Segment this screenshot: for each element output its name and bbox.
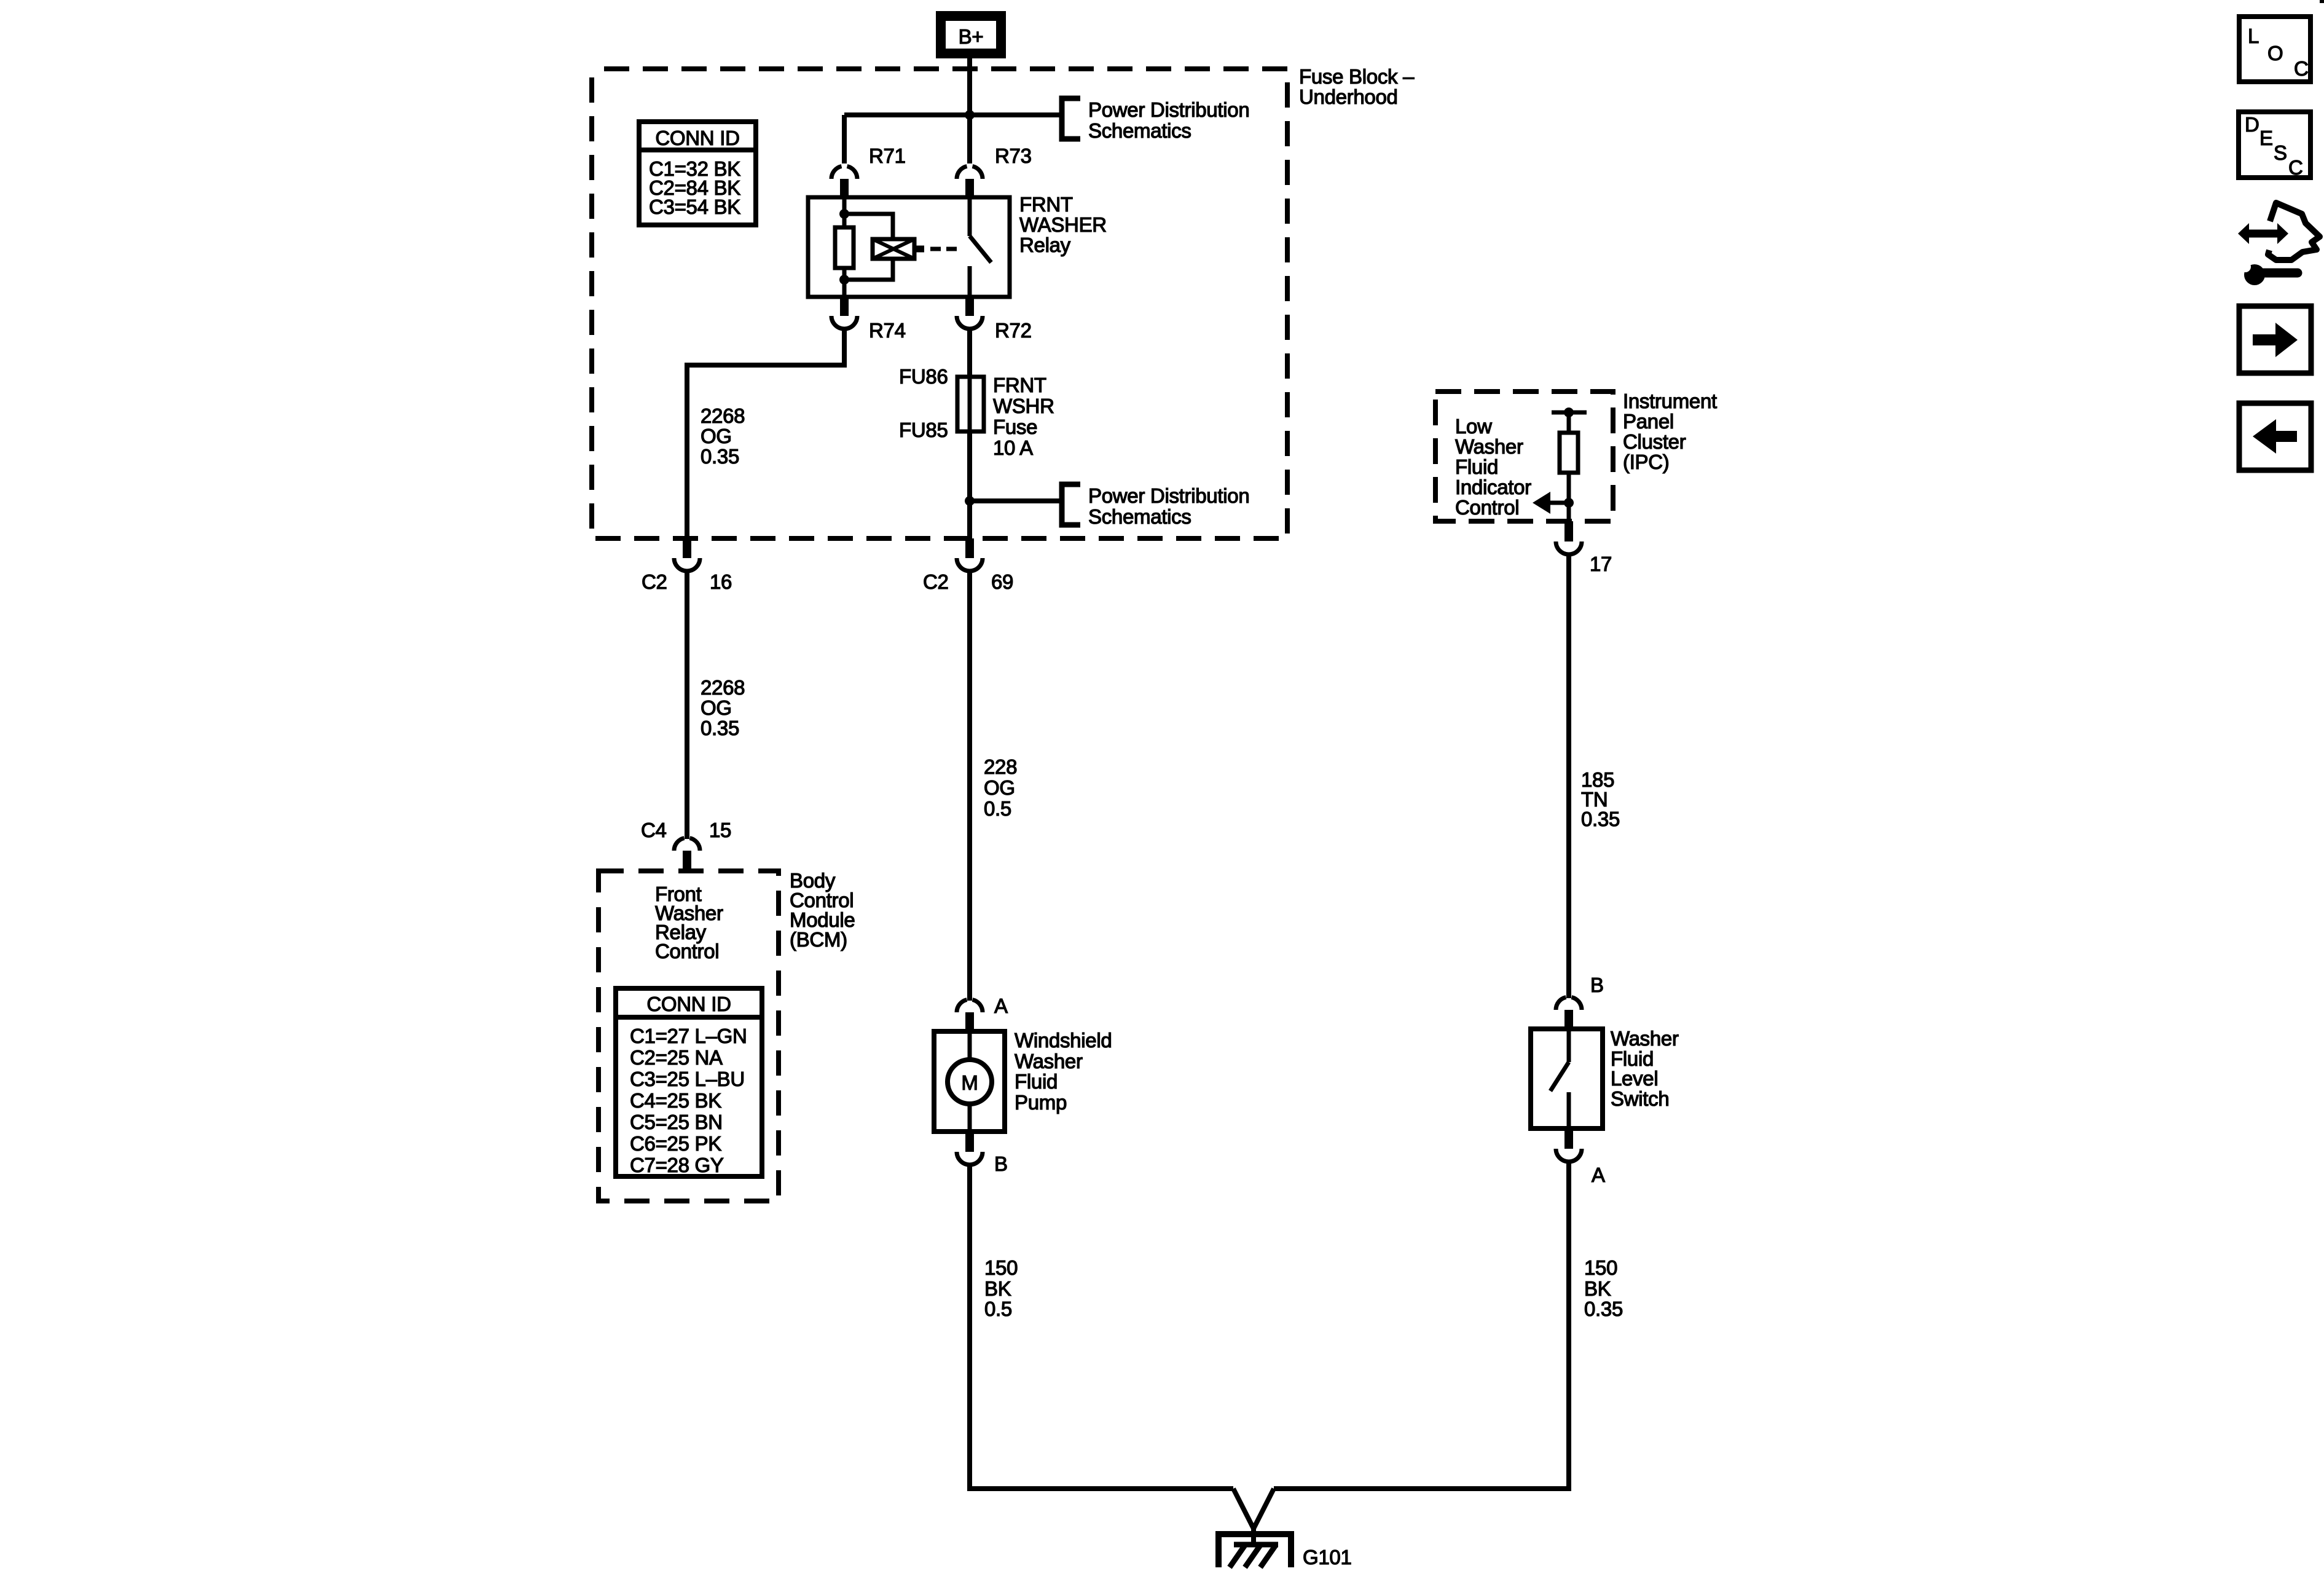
- svg-text:R73: R73: [995, 144, 1032, 167]
- CONN ID table fuse block: [639, 122, 756, 225]
- svg-text:Schematics: Schematics: [1088, 119, 1191, 142]
- wire ground V left: [1233, 1489, 1254, 1529]
- svg-text:2268: 2268: [701, 676, 745, 699]
- svg-text:Low: Low: [1455, 415, 1492, 438]
- svg-text:Fuse: Fuse: [993, 415, 1037, 438]
- arrow low washer fluid indicator control: [1533, 492, 1569, 514]
- svg-text:16: 16: [710, 570, 732, 593]
- wire label 150 BK 0.35: [1584, 1256, 1623, 1320]
- wire B+ to junction: [967, 58, 972, 115]
- icon schematic navigation: [2238, 203, 2320, 285]
- label Washer Fluid Level Switch: [1611, 1027, 1679, 1110]
- wire IPC to resistor: [1567, 412, 1571, 433]
- connector R74: [831, 297, 906, 342]
- fuse FRNT WSHR: [899, 365, 1054, 459]
- wire fuse to lower junction: [967, 431, 972, 538]
- svg-text:Level: Level: [1611, 1067, 1658, 1090]
- connector R72: [957, 297, 1032, 342]
- wire junction to R71 branch: [844, 112, 970, 117]
- svg-text:CONN ID: CONN ID: [655, 127, 739, 149]
- svg-text:C2=25 NA: C2=25 NA: [630, 1046, 723, 1069]
- svg-text:B: B: [994, 1152, 1008, 1175]
- svg-text:CONN ID: CONN ID: [646, 993, 731, 1015]
- wire junction to power distribution bracket: [970, 112, 1061, 117]
- connector switch B: [1556, 974, 1604, 1029]
- connector C2 16: [642, 538, 732, 593]
- body control module dashed box: [599, 871, 779, 1201]
- wire coil bottom to solenoid: [844, 259, 893, 280]
- wire pump B to ground run: [970, 1164, 1233, 1489]
- svg-text:FU86: FU86: [899, 365, 948, 388]
- svg-text:10 A: 10 A: [993, 436, 1033, 459]
- wire resistor to node: [1567, 473, 1571, 521]
- svg-text:150: 150: [984, 1256, 1018, 1279]
- svg-text:C: C: [2288, 156, 2303, 179]
- connector C2 69: [923, 538, 1013, 593]
- svg-text:WASHER: WASHER: [1019, 213, 1107, 236]
- solenoid relay operator: [873, 239, 924, 259]
- label Windshield Washer Fluid Pump: [1015, 1029, 1112, 1114]
- svg-text:0.35: 0.35: [701, 717, 739, 739]
- svg-text:0.35: 0.35: [1581, 808, 1620, 830]
- connector R73: [957, 144, 1032, 199]
- svg-text:C2: C2: [923, 570, 949, 593]
- label Instrument Panel Cluster IPC: [1623, 390, 1717, 473]
- svg-text:Control: Control: [1455, 496, 1519, 519]
- connector pump A: [957, 994, 1008, 1031]
- svg-text:17: 17: [1590, 553, 1612, 575]
- icon arrow next: [2239, 306, 2311, 373]
- wire coil top to solenoid: [844, 214, 893, 239]
- svg-text:Fluid: Fluid: [1015, 1070, 1058, 1093]
- svg-text:B+: B+: [959, 25, 984, 48]
- motor M pump: [948, 1060, 992, 1104]
- instrument panel cluster dashed box: [1435, 392, 1613, 521]
- svg-text:Schematics: Schematics: [1088, 505, 1191, 528]
- wire coil bottom: [842, 268, 847, 297]
- svg-text:C: C: [2294, 57, 2309, 80]
- node IPC top: [1564, 408, 1574, 417]
- node IPC arrow junction: [1564, 498, 1574, 508]
- svg-text:R71: R71: [869, 144, 906, 167]
- wire label 185 TN 0.35: [1581, 768, 1620, 830]
- relay FRNT WASHER box: [808, 197, 1010, 297]
- svg-text:BK: BK: [1584, 1277, 1611, 1300]
- svg-text:B: B: [1590, 974, 1604, 996]
- wire R74 to C2-16 jog: [687, 328, 844, 538]
- svg-text:0.35: 0.35: [1584, 1297, 1623, 1320]
- svg-text:OG: OG: [984, 776, 1015, 799]
- wire 17 to switch B: [1566, 553, 1571, 998]
- node coil top: [839, 209, 849, 219]
- label FRNT WASHER Relay: [1019, 193, 1107, 256]
- connector bracket power distribution lower: [1062, 484, 1080, 525]
- connector switch A: [1556, 1128, 1605, 1186]
- CONN ID table BCM: [616, 988, 762, 1176]
- svg-text:0.5: 0.5: [984, 1297, 1012, 1320]
- svg-text:Instrument: Instrument: [1623, 390, 1717, 412]
- svg-text:Control: Control: [655, 940, 719, 963]
- wire label 2268 OG 0.35 upper: [701, 404, 745, 468]
- resistor relay coil: [835, 227, 854, 268]
- svg-text:Power Distribution: Power Distribution: [1088, 98, 1249, 121]
- label Front Washer Relay Control: [655, 883, 723, 963]
- svg-text:Underhood: Underhood: [1299, 85, 1398, 108]
- svg-text:150: 150: [1584, 1256, 1617, 1279]
- wire ground V right: [1254, 1489, 1274, 1529]
- svg-text:0.35: 0.35: [701, 445, 739, 468]
- relay switch blade: [970, 236, 991, 262]
- icon LOC box: [2239, 17, 2310, 82]
- svg-text:Power Distribution: Power Distribution: [1088, 484, 1249, 507]
- wire R72 to fuse: [967, 328, 972, 377]
- svg-text:228: 228: [984, 755, 1017, 778]
- svg-text:O: O: [2267, 42, 2283, 65]
- svg-text:Washer: Washer: [1611, 1027, 1679, 1050]
- svg-text:C1=27 L–GN: C1=27 L–GN: [630, 1025, 747, 1047]
- node lower junction: [965, 496, 975, 506]
- connector R71: [831, 144, 906, 199]
- wire switch A to ground run: [1274, 1160, 1569, 1489]
- svg-text:C4: C4: [641, 819, 667, 841]
- svg-text:BK: BK: [984, 1277, 1011, 1300]
- wire junction to power distribution bracket lower: [970, 498, 1061, 503]
- wire label 2268 OG 0.35 lower: [701, 676, 745, 739]
- svg-text:Fuse Block –: Fuse Block –: [1299, 65, 1415, 88]
- svg-text:C3=54 BK: C3=54 BK: [649, 195, 740, 218]
- label power distribution schematics top: [1088, 98, 1249, 142]
- svg-text:G101: G101: [1303, 1546, 1352, 1569]
- dashed actuator link: [930, 247, 962, 251]
- svg-text:L: L: [2248, 25, 2259, 47]
- corner tick: [2320, 0, 2324, 3]
- svg-text:Panel: Panel: [1623, 410, 1674, 433]
- wire to relay pin R71: [842, 115, 847, 163]
- label Low Washer Fluid Indicator Control: [1455, 415, 1531, 519]
- svg-text:C3=25 L–BU: C3=25 L–BU: [630, 1068, 745, 1090]
- svg-text:M: M: [961, 1071, 978, 1094]
- svg-text:Relay: Relay: [1019, 234, 1071, 256]
- resistor IPC indicator: [1560, 433, 1578, 473]
- label Body Control Module BCM: [790, 869, 855, 951]
- label power distribution schematics lower: [1088, 484, 1249, 528]
- svg-text:C2: C2: [642, 570, 667, 593]
- svg-text:C6=25 PK: C6=25 PK: [630, 1132, 721, 1155]
- svg-text:A: A: [1592, 1164, 1605, 1186]
- svg-text:D: D: [2245, 113, 2259, 136]
- svg-text:A: A: [994, 994, 1008, 1017]
- wire C2-69 to pump A: [967, 570, 972, 1001]
- svg-text:Fluid: Fluid: [1455, 455, 1498, 478]
- svg-text:2268: 2268: [701, 404, 745, 427]
- svg-text:Pump: Pump: [1015, 1091, 1067, 1114]
- node junction at B+ feed: [965, 110, 975, 120]
- svg-text:0.5: 0.5: [984, 797, 1011, 820]
- svg-text:Cluster: Cluster: [1623, 430, 1686, 453]
- svg-text:S: S: [2274, 141, 2287, 164]
- svg-text:69: 69: [991, 570, 1013, 593]
- svg-text:FRNT: FRNT: [1019, 193, 1073, 216]
- svg-text:(IPC): (IPC): [1623, 451, 1670, 473]
- svg-text:Switch: Switch: [1611, 1087, 1669, 1110]
- wire to relay pin R73: [967, 115, 972, 163]
- wire ground stub: [1251, 1526, 1256, 1545]
- svg-text:R74: R74: [869, 319, 906, 342]
- connector bracket power distribution top: [1062, 98, 1080, 139]
- svg-text:Washer: Washer: [1015, 1050, 1083, 1073]
- svg-text:Indicator: Indicator: [1455, 476, 1531, 498]
- svg-text:C5=25 BN: C5=25 BN: [630, 1111, 723, 1133]
- connector C4 15: [641, 819, 731, 871]
- node coil bottom: [839, 275, 849, 285]
- windshield washer fluid pump box: [934, 1031, 1005, 1132]
- icon DESC box: [2239, 112, 2310, 179]
- svg-text:R72: R72: [995, 319, 1032, 342]
- svg-text:Windshield: Windshield: [1015, 1029, 1112, 1052]
- ground G101: [1219, 1534, 1352, 1569]
- icon arrow previous: [2239, 403, 2311, 470]
- svg-text:WSHR: WSHR: [993, 395, 1054, 417]
- relay coil feed wire: [842, 197, 847, 227]
- svg-text:C7=28 GY: C7=28 GY: [630, 1154, 724, 1176]
- relay switch contact upper: [968, 197, 972, 236]
- IPC internal feed stub: [1552, 411, 1587, 415]
- svg-text:E: E: [2259, 127, 2273, 149]
- wire label 228 OG 0.5: [984, 755, 1017, 820]
- washer fluid level switch box: [1531, 1029, 1603, 1128]
- svg-text:Washer: Washer: [1455, 435, 1523, 458]
- svg-text:OG: OG: [701, 425, 732, 447]
- wire C2-16 to C4-15: [685, 570, 689, 839]
- svg-text:15: 15: [709, 819, 731, 841]
- connector pump B: [957, 1132, 1008, 1175]
- label Fuse Block - Underhood: [1299, 65, 1415, 108]
- svg-text:FRNT: FRNT: [993, 374, 1046, 396]
- svg-text:OG: OG: [701, 696, 732, 719]
- fuse block underhood dashed box: [592, 69, 1287, 538]
- svg-text:C4=25 BK: C4=25 BK: [630, 1089, 721, 1112]
- wire label 150 BK 0.5: [984, 1256, 1018, 1320]
- connector IPC 17: [1556, 521, 1612, 575]
- relay switch contact lower: [968, 266, 972, 297]
- svg-text:FU85: FU85: [899, 419, 948, 441]
- power symbol B+: [941, 16, 1001, 53]
- svg-text:(BCM): (BCM): [790, 928, 847, 951]
